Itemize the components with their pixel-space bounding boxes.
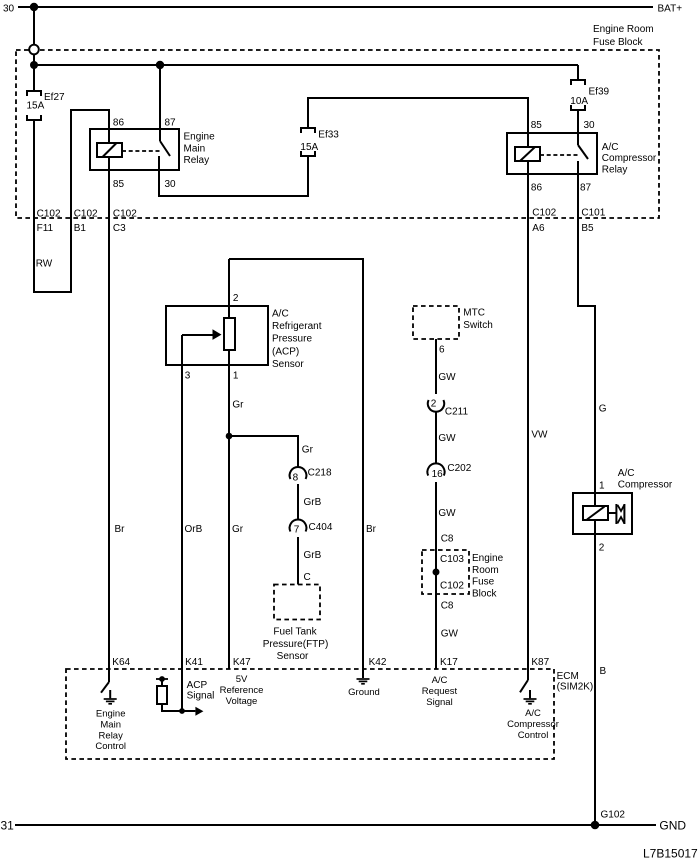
svg-text:Voltage: Voltage bbox=[226, 696, 258, 707]
svg-text:Gr: Gr bbox=[302, 445, 314, 456]
svg-text:OrB: OrB bbox=[185, 524, 203, 535]
svg-text:Engine: Engine bbox=[96, 709, 126, 720]
svg-text:C102: C102 bbox=[532, 208, 556, 219]
svg-text:Reference: Reference bbox=[220, 685, 264, 696]
svg-text:C211: C211 bbox=[445, 407, 469, 418]
svg-text:Control: Control bbox=[95, 741, 126, 752]
svg-text:VW: VW bbox=[531, 430, 548, 441]
svg-text:Block: Block bbox=[472, 588, 497, 599]
svg-text:Control: Control bbox=[518, 730, 549, 741]
svg-text:ECM: ECM bbox=[557, 671, 579, 682]
svg-text:A/C: A/C bbox=[602, 142, 619, 153]
svg-text:A/C: A/C bbox=[525, 708, 541, 719]
svg-text:87: 87 bbox=[165, 118, 177, 129]
svg-text:C101: C101 bbox=[581, 208, 605, 219]
svg-text:15A: 15A bbox=[27, 100, 45, 111]
svg-text:B: B bbox=[600, 666, 607, 677]
svg-text:Ef39: Ef39 bbox=[589, 86, 610, 97]
svg-text:16: 16 bbox=[432, 469, 444, 480]
svg-text:Relay: Relay bbox=[602, 164, 628, 175]
svg-text:C404: C404 bbox=[309, 522, 333, 533]
svg-text:3: 3 bbox=[185, 371, 191, 382]
svg-text:Sensor: Sensor bbox=[277, 651, 309, 662]
svg-text:Br: Br bbox=[366, 524, 377, 535]
svg-text:GW: GW bbox=[438, 372, 456, 383]
svg-text:2: 2 bbox=[599, 543, 605, 554]
svg-text:Fuse: Fuse bbox=[472, 577, 495, 588]
svg-text:30: 30 bbox=[165, 179, 177, 190]
svg-text:GW: GW bbox=[438, 433, 456, 444]
svg-text:GrB: GrB bbox=[304, 497, 322, 508]
svg-text:(SIM2K): (SIM2K) bbox=[557, 682, 594, 693]
svg-text:BAT+: BAT+ bbox=[658, 4, 683, 15]
svg-text:A/C: A/C bbox=[432, 675, 448, 686]
svg-text:85: 85 bbox=[113, 179, 125, 190]
svg-text:GW: GW bbox=[441, 629, 459, 640]
svg-text:GW: GW bbox=[438, 508, 456, 519]
svg-text:K41: K41 bbox=[185, 657, 203, 668]
svg-text:C103: C103 bbox=[440, 554, 464, 565]
svg-text:Br: Br bbox=[115, 524, 126, 535]
svg-text:87: 87 bbox=[580, 183, 592, 194]
svg-text:10A: 10A bbox=[570, 96, 588, 107]
svg-text:30: 30 bbox=[3, 4, 15, 15]
svg-text:F11: F11 bbox=[37, 223, 54, 234]
svg-text:Request: Request bbox=[422, 686, 458, 697]
svg-text:C102: C102 bbox=[74, 209, 98, 220]
svg-text:Engine: Engine bbox=[472, 553, 504, 564]
svg-text:Ef33: Ef33 bbox=[318, 130, 339, 141]
svg-text:C102: C102 bbox=[440, 581, 464, 592]
svg-text:Refrigerant: Refrigerant bbox=[272, 321, 322, 332]
svg-text:Gr: Gr bbox=[232, 400, 244, 411]
svg-text:ACP: ACP bbox=[187, 680, 208, 691]
svg-text:Room: Room bbox=[472, 565, 499, 576]
svg-text:1: 1 bbox=[233, 371, 239, 382]
svg-text:C102: C102 bbox=[37, 209, 61, 220]
svg-text:GND: GND bbox=[659, 819, 686, 833]
svg-text:G: G bbox=[599, 404, 607, 415]
svg-text:GrB: GrB bbox=[304, 550, 322, 561]
svg-text:7: 7 bbox=[294, 525, 300, 536]
svg-text:K47: K47 bbox=[233, 657, 251, 668]
svg-text:K42: K42 bbox=[369, 657, 387, 668]
svg-text:Switch: Switch bbox=[463, 320, 492, 331]
svg-text:Pressure(FTP): Pressure(FTP) bbox=[263, 639, 329, 650]
svg-text:C218: C218 bbox=[308, 468, 332, 479]
svg-text:MTC: MTC bbox=[463, 307, 485, 318]
svg-text:Engine Room: Engine Room bbox=[593, 24, 654, 35]
svg-text:B5: B5 bbox=[581, 223, 594, 234]
svg-text:8: 8 bbox=[293, 473, 299, 484]
svg-text:A/C: A/C bbox=[618, 468, 635, 479]
svg-text:A/C: A/C bbox=[272, 309, 289, 320]
svg-text:A6: A6 bbox=[532, 223, 545, 234]
svg-text:C8: C8 bbox=[441, 601, 454, 612]
svg-text:Relay: Relay bbox=[184, 155, 210, 166]
svg-text:6: 6 bbox=[439, 344, 445, 355]
svg-text:2: 2 bbox=[233, 293, 239, 304]
svg-text:K87: K87 bbox=[531, 657, 549, 668]
svg-text:C: C bbox=[304, 572, 311, 583]
svg-text:2: 2 bbox=[431, 399, 437, 410]
svg-text:86: 86 bbox=[113, 118, 125, 129]
svg-text:C102: C102 bbox=[113, 209, 137, 220]
svg-text:5V: 5V bbox=[236, 674, 248, 685]
svg-text:L7B15017: L7B15017 bbox=[643, 847, 698, 861]
svg-text:Gr: Gr bbox=[232, 524, 244, 535]
svg-text:C8: C8 bbox=[441, 534, 454, 545]
svg-text:Compressor: Compressor bbox=[507, 719, 559, 730]
svg-text:85: 85 bbox=[531, 120, 543, 131]
svg-text:G102: G102 bbox=[601, 810, 626, 821]
svg-text:1: 1 bbox=[599, 481, 605, 492]
svg-text:Signal: Signal bbox=[187, 691, 215, 702]
svg-text:C3: C3 bbox=[113, 223, 126, 234]
svg-text:30: 30 bbox=[584, 120, 596, 131]
svg-text:K17: K17 bbox=[440, 657, 458, 668]
svg-text:Signal: Signal bbox=[426, 697, 452, 708]
svg-text:Compressor: Compressor bbox=[602, 153, 657, 164]
svg-text:Engine: Engine bbox=[184, 132, 216, 143]
svg-text:Ground: Ground bbox=[348, 687, 380, 698]
svg-text:B1: B1 bbox=[74, 223, 87, 234]
svg-text:Sensor: Sensor bbox=[272, 359, 304, 370]
svg-text:Main: Main bbox=[184, 143, 206, 154]
svg-text:C202: C202 bbox=[447, 463, 471, 474]
svg-text:Compressor: Compressor bbox=[618, 480, 673, 491]
svg-text:Pressure: Pressure bbox=[272, 334, 312, 345]
svg-text:Main: Main bbox=[100, 719, 121, 730]
svg-text:Fuel Tank: Fuel Tank bbox=[273, 627, 317, 638]
svg-text:K64: K64 bbox=[112, 657, 130, 668]
svg-text:Relay: Relay bbox=[99, 730, 124, 741]
svg-text:15A: 15A bbox=[300, 142, 318, 153]
svg-text:86: 86 bbox=[531, 183, 543, 194]
svg-text:RW: RW bbox=[36, 259, 53, 270]
svg-text:31: 31 bbox=[1, 819, 15, 833]
svg-text:(ACP): (ACP) bbox=[272, 346, 299, 357]
svg-text:Ef27: Ef27 bbox=[44, 92, 65, 103]
svg-text:Fuse Block: Fuse Block bbox=[593, 37, 643, 48]
